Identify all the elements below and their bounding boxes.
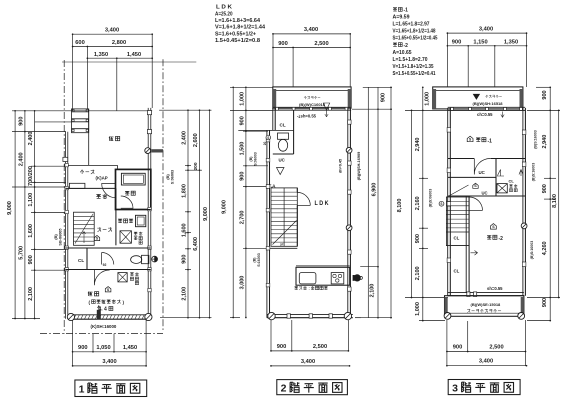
svg-text:S:16003: S:16003: [257, 253, 261, 267]
svg-text:(B)(W)SE:15018: (B)(W)SE:15018: [471, 302, 502, 307]
svg-text:-1: -1: [404, 8, 409, 14]
svg-text:UC: UC: [479, 170, 486, 175]
svg-text:S=1.65+0.55+1/2=0.45: S=1.65+0.55+1/2=0.45: [393, 36, 438, 42]
svg-text:1,150: 1,150: [473, 39, 487, 45]
svg-text:(K)SH:16000: (K)SH:16000: [91, 324, 117, 329]
svg-text:2,400: 2,400: [181, 131, 187, 145]
svg-text:2F: 2F: [280, 242, 284, 246]
svg-text:A=25.20: A=25.20: [215, 11, 233, 17]
svg-text:(B)S:16003: (B)S:16003: [530, 241, 534, 260]
svg-text:900: 900: [542, 298, 548, 307]
svg-text:-2: -2: [499, 236, 504, 242]
svg-text:(B)S:16003: (B)S:16003: [532, 163, 536, 182]
svg-text:L D K: L D K: [315, 201, 330, 207]
svg-text:900: 900: [453, 345, 463, 351]
svg-text:UC: UC: [279, 158, 286, 163]
svg-text:3,400: 3,400: [105, 28, 119, 34]
svg-text:L D K: L D K: [216, 5, 232, 11]
svg-text:(K)AP: (K)AP: [96, 175, 108, 180]
svg-text:L=1.6+1.8+3=6.64: L=1.6+1.8+3=6.64: [215, 18, 260, 24]
svg-text:900: 900: [28, 255, 34, 264]
svg-text:1,600: 1,600: [28, 224, 34, 238]
svg-text:1: 1: [79, 383, 85, 395]
svg-text:2,500: 2,500: [313, 344, 327, 350]
svg-text:1,450: 1,450: [123, 345, 137, 351]
svg-text:900: 900: [277, 344, 287, 350]
svg-text:1,350: 1,350: [94, 52, 108, 58]
svg-text:sh=0.55: sh=0.55: [301, 114, 317, 119]
svg-text:900: 900: [78, 345, 88, 351]
svg-text:dh=0.45: dh=0.45: [339, 159, 343, 173]
svg-text:200: 200: [193, 162, 199, 170]
svg-text:S:06003: S:06003: [254, 152, 258, 166]
svg-text:(B)(W)SH:16518: (B)(W)SH:16518: [473, 101, 504, 106]
svg-text:3,000: 3,000: [239, 276, 245, 290]
svg-text:900: 900: [542, 184, 548, 193]
svg-text:2: 2: [281, 383, 287, 395]
svg-text:2,940: 2,940: [415, 138, 421, 152]
svg-text:3,400: 3,400: [479, 359, 493, 365]
svg-text:CL: CL: [280, 122, 286, 127]
svg-text:-2: -2: [404, 43, 409, 49]
svg-text:900: 900: [239, 172, 245, 181]
svg-text:V=1.65+1.8+1/2=1.48: V=1.65+1.8+1/2=1.48: [393, 29, 436, 35]
svg-text:(B): (B): [249, 156, 253, 162]
svg-text:2,400: 2,400: [28, 132, 34, 146]
svg-text:1,800: 1,800: [181, 184, 187, 198]
svg-text:CL: CL: [454, 268, 460, 273]
svg-text:900: 900: [181, 255, 187, 264]
svg-text:S:06003: S:06003: [171, 170, 175, 184]
svg-text:CL: CL: [509, 178, 515, 183]
svg-text:2,800: 2,800: [112, 40, 126, 46]
svg-text:1,350: 1,350: [504, 39, 518, 45]
svg-text:8,100: 8,100: [397, 199, 403, 213]
svg-text:900: 900: [415, 234, 421, 243]
svg-text:V=1.6+1.8+1/2=1.44: V=1.6+1.8+1/2=1.44: [215, 25, 265, 31]
svg-text:-1: -1: [488, 138, 493, 144]
svg-text:A=9.59: A=9.59: [393, 15, 410, 21]
svg-text:9,000: 9,000: [7, 201, 13, 215]
svg-text:1,000: 1,000: [239, 92, 245, 106]
svg-text:900: 900: [18, 117, 24, 126]
svg-text:V=1.5+1.8+1/2=1.35: V=1.5+1.8+1/2=1.35: [393, 64, 434, 70]
svg-text:700/200: 700/200: [28, 166, 34, 186]
svg-text:CL: CL: [78, 258, 84, 263]
svg-text:1,000: 1,000: [415, 302, 421, 316]
svg-text:20: 20: [263, 142, 267, 146]
svg-text:6,900: 6,900: [371, 183, 377, 197]
svg-text:9,000: 9,000: [203, 207, 209, 221]
svg-text:1,450: 1,450: [127, 52, 141, 58]
svg-text:S=1.6+0.55+1/2+: S=1.6+0.55+1/2+: [215, 31, 256, 37]
svg-text:1,600: 1,600: [181, 223, 187, 237]
svg-text:4,260: 4,260: [542, 241, 548, 255]
svg-text:S: S: [267, 136, 269, 140]
svg-text:(B)S:06003: (B)S:06003: [429, 189, 433, 208]
svg-text:2,100: 2,100: [181, 287, 187, 301]
svg-text:2,500: 2,500: [489, 345, 503, 351]
svg-text:8,100: 8,100: [552, 194, 558, 208]
svg-text:2,100: 2,100: [28, 287, 34, 301]
svg-text:S: S: [440, 202, 442, 206]
svg-text:(B)(W)C16018: (B)(W)C16018: [299, 102, 326, 107]
svg-text:3,400: 3,400: [102, 359, 116, 365]
svg-text:900: 900: [381, 93, 387, 102]
svg-text:2,100: 2,100: [369, 284, 375, 298]
svg-text:3,400: 3,400: [304, 27, 318, 33]
svg-text:(B)S:16003: (B)S:16003: [534, 130, 538, 149]
svg-text:sh=0.55: sh=0.55: [487, 286, 503, 291]
svg-text:2,600: 2,600: [193, 133, 199, 147]
svg-text:900: 900: [452, 39, 462, 45]
svg-text:1,000: 1,000: [425, 92, 431, 106]
svg-text:A=10.65: A=10.65: [393, 50, 412, 56]
svg-text:CL: CL: [454, 235, 460, 240]
svg-text:2,100: 2,100: [415, 266, 421, 280]
svg-text:S=1.5+0.55+1/2=0.41: S=1.5+0.55+1/2=0.41: [393, 71, 436, 77]
svg-text:92: 92: [103, 263, 107, 267]
svg-text:(B)(W)SH-16909: (B)(W)SH-16909: [357, 152, 361, 180]
svg-text:1.5+0.45+1/2=0.8: 1.5+0.45+1/2=0.8: [215, 38, 260, 44]
svg-text:3: 3: [452, 383, 458, 395]
svg-text:2,940: 2,940: [542, 135, 548, 149]
svg-text:2,500: 2,500: [314, 41, 328, 47]
svg-text:2,400: 2,400: [18, 152, 24, 166]
svg-text:9,000: 9,000: [222, 200, 228, 214]
svg-text:(B): (B): [253, 257, 257, 263]
svg-text:900: 900: [239, 116, 245, 125]
svg-text:2,700: 2,700: [239, 211, 245, 225]
svg-text:ch=0.55: ch=0.55: [477, 112, 493, 117]
svg-text:(B): (B): [166, 174, 170, 180]
svg-text:600: 600: [75, 40, 85, 46]
svg-text:3,400: 3,400: [301, 359, 315, 365]
svg-text:(B): (B): [54, 234, 58, 240]
svg-text:5,700: 5,700: [18, 246, 24, 260]
svg-text:L=1.65+1.8=2.97: L=1.65+1.8=2.97: [393, 22, 430, 28]
svg-text:3,400: 3,400: [479, 26, 493, 32]
svg-text:1,100: 1,100: [28, 193, 34, 207]
svg-text:900: 900: [278, 41, 288, 47]
svg-text::: :: [309, 286, 310, 291]
svg-text:900: 900: [542, 90, 548, 99]
svg-text:1,050: 1,050: [96, 345, 110, 351]
svg-text:UC: UC: [482, 191, 488, 196]
svg-text:2,160: 2,160: [415, 196, 421, 210]
svg-text:L=1.5+1.8=2.70: L=1.5+1.8=2.70: [393, 57, 428, 63]
svg-text:1,500: 1,500: [239, 142, 245, 156]
svg-text:6,400: 6,400: [193, 237, 199, 251]
svg-text:SB-06005: SB-06005: [59, 228, 63, 245]
